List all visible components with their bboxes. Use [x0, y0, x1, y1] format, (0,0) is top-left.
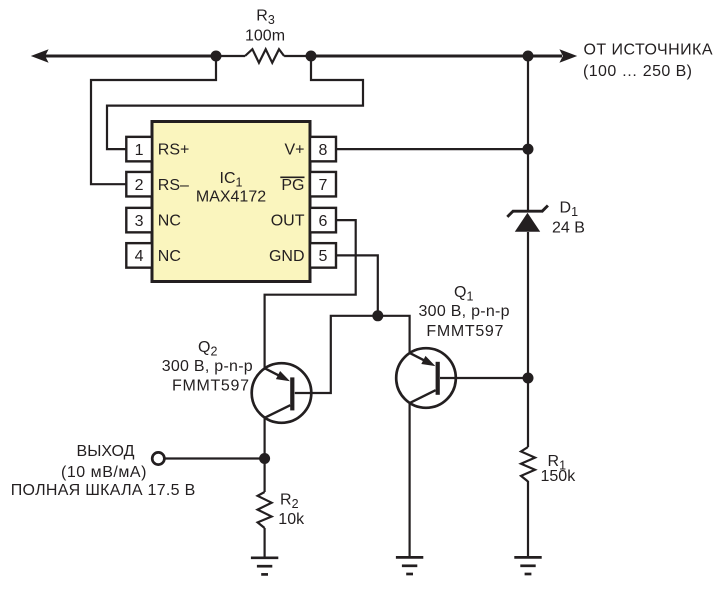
svg-text:MAX4172: MAX4172 [196, 189, 266, 206]
svg-text:150k: 150k [541, 468, 577, 485]
wire: D1 to R1 [527, 232, 529, 447]
arrowhead left (to source) [31, 49, 49, 63]
arrowhead right (to source) [559, 49, 577, 63]
svg-text:ОТ ИСТОЧНИКА: ОТ ИСТОЧНИКА [584, 42, 713, 59]
svg-text:ВЫХОД: ВЫХОД [77, 443, 135, 460]
label R1 [548, 453, 567, 473]
resistor R3 [216, 49, 311, 63]
svg-text:R2: R2 [280, 492, 299, 512]
wire: top supply bus right segment [311, 55, 562, 58]
resistor R1 [521, 447, 535, 482]
label IC1 [220, 170, 243, 190]
label Q1 [454, 284, 473, 304]
label MAX4172 [196, 189, 266, 206]
svg-text:300 В, p-n-p: 300 В, p-n-p [162, 358, 253, 375]
svg-text:3: 3 [135, 213, 144, 230]
label Q1 rating [419, 303, 510, 320]
value 100m [245, 27, 285, 44]
label ПОЛНАЯ ШКАЛА 17.5 В [11, 482, 196, 499]
node: output junction [259, 453, 270, 464]
svg-text:RS–: RS– [158, 177, 189, 194]
ground (Q1 collector) [396, 557, 423, 574]
pin label RS- [158, 177, 189, 194]
ground (R2) [251, 558, 278, 575]
label D1 [560, 200, 579, 220]
svg-text:ПОЛНАЯ ШКАЛА 17.5 В: ПОЛНАЯ ШКАЛА 17.5 В [11, 482, 196, 499]
terminal: output (open circle) [152, 452, 164, 464]
pin label RS+ [158, 142, 190, 159]
label Q2 rating [162, 358, 253, 375]
pin label PG with overline [280, 177, 304, 194]
wire: output node to R2 [264, 459, 266, 493]
svg-text:OUT: OUT [271, 213, 305, 230]
label Q2 [198, 339, 217, 359]
label Q1 part [426, 323, 503, 340]
pin 4 box [126, 243, 152, 268]
pin label NC (pin4) [158, 248, 181, 265]
pin label GND [269, 248, 305, 265]
wire: pin 5 (GND) to base node [336, 255, 378, 315]
pin 2 box [126, 172, 152, 197]
transistor Q1 (p-n-p FMMT597) [396, 348, 456, 408]
pin 7 box [310, 172, 336, 197]
svg-text:5: 5 [319, 248, 328, 265]
svg-text:(100 … 250 В): (100 … 250 В) [583, 63, 692, 80]
value 10k [278, 511, 305, 528]
svg-text:4: 4 [135, 248, 144, 265]
svg-text:Q2: Q2 [198, 339, 217, 359]
node: junction Q1 base / R1 [523, 373, 534, 384]
svg-text:V+: V+ [284, 142, 304, 159]
pin label NC (pin3) [158, 213, 181, 230]
wire: pin 6 (OUT) to Q2 emitter [265, 220, 356, 368]
svg-text:R3: R3 [256, 7, 275, 27]
svg-text:FMMT597: FMMT597 [172, 378, 249, 395]
svg-text:Q1: Q1 [454, 284, 473, 304]
diode D1 (zener, 24V) [507, 206, 548, 232]
svg-text:(10 мВ/мА): (10 мВ/мА) [61, 464, 146, 481]
pin 1 box [126, 137, 152, 162]
wire: left bus tap to pin 2 (RS-) [91, 56, 216, 184]
pin 3 box [126, 208, 152, 233]
wire: top supply bus left segment [44, 55, 216, 58]
svg-text:6: 6 [319, 213, 328, 230]
label R3 [256, 7, 275, 27]
wire: R2 to ground [264, 528, 266, 558]
transistor Q2 (p-n-p FMMT597) [252, 363, 312, 423]
svg-text:24 В: 24 В [552, 220, 585, 237]
pin label V+ [284, 142, 304, 159]
label (10 мВ/мА) [61, 464, 146, 481]
svg-text:FMMT597: FMMT597 [426, 323, 503, 340]
svg-text:10k: 10k [278, 511, 305, 528]
label 24 В [552, 220, 585, 237]
svg-text:8: 8 [319, 142, 328, 159]
svg-text:2: 2 [135, 177, 144, 194]
svg-text:NC: NC [158, 213, 181, 230]
value 150k [541, 468, 577, 485]
wire: supply rail vertical (bus to D1) [527, 56, 529, 211]
label R2 [280, 492, 299, 512]
node: base junction [372, 310, 383, 321]
label: (100 … 250 В) [583, 63, 692, 80]
wire: Q1 base to D1/R1 node [440, 377, 528, 379]
svg-text:NC: NC [158, 248, 181, 265]
resistor R2 [258, 492, 272, 528]
svg-text:300 В, p-n-p: 300 В, p-n-p [419, 303, 510, 320]
wire: output terminal to node [165, 457, 265, 459]
pin 6 box [310, 208, 336, 233]
svg-text:1: 1 [135, 142, 144, 159]
wire: right bus tap to pin 1 (RS+) [107, 56, 363, 149]
svg-text:GND: GND [269, 248, 305, 265]
node: bus junction left [211, 51, 222, 62]
wire: Q2 collector to output node [264, 418, 266, 459]
wire: Q1 collector to ground [409, 403, 411, 557]
pin 5 box [310, 243, 336, 268]
node: junction pin8/rail [523, 144, 534, 155]
svg-text:100m: 100m [245, 27, 285, 44]
label: ОТ ИСТОЧНИКА [584, 42, 713, 59]
wire: R1 to ground [527, 481, 529, 557]
svg-text:RS+: RS+ [158, 142, 190, 159]
ground (R1) [514, 557, 541, 574]
op-amp IC1 MAX4172 body [152, 122, 310, 282]
label Q2 part [172, 378, 249, 395]
svg-text:PG: PG [281, 177, 304, 194]
node: bus junction at D1 branch [523, 51, 534, 62]
label ВЫХОД [77, 443, 135, 460]
svg-text:D1: D1 [560, 200, 579, 220]
pin label OUT [271, 213, 305, 230]
wire: base node to Q2 base [295, 316, 378, 393]
pin 8 box [310, 137, 336, 162]
svg-text:7: 7 [319, 177, 328, 194]
wire: base node to Q1 emitter [378, 316, 410, 353]
wire: pin 8 (V+) to supply rail [336, 148, 528, 150]
node: bus junction right [306, 51, 317, 62]
